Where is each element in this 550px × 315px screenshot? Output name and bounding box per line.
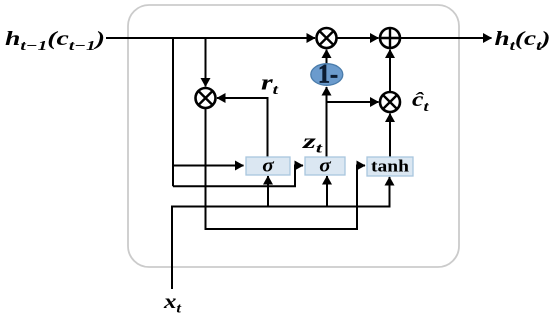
svg-text:zt: zt [301,129,323,157]
svg-text:ht(ct): ht(ct) [495,28,550,54]
svg-text:σ: σ [319,156,331,177]
svg-text:tanh: tanh [371,157,410,176]
svg-text:xt: xt [163,289,182,315]
svg-text:1-: 1- [318,60,338,89]
svg-text:ht−1(ct−1): ht−1(ct−1) [5,28,105,54]
svg-text:rt: rt [261,70,280,99]
svg-text:ĉt: ĉt [412,89,430,115]
svg-text:σ: σ [262,156,274,177]
